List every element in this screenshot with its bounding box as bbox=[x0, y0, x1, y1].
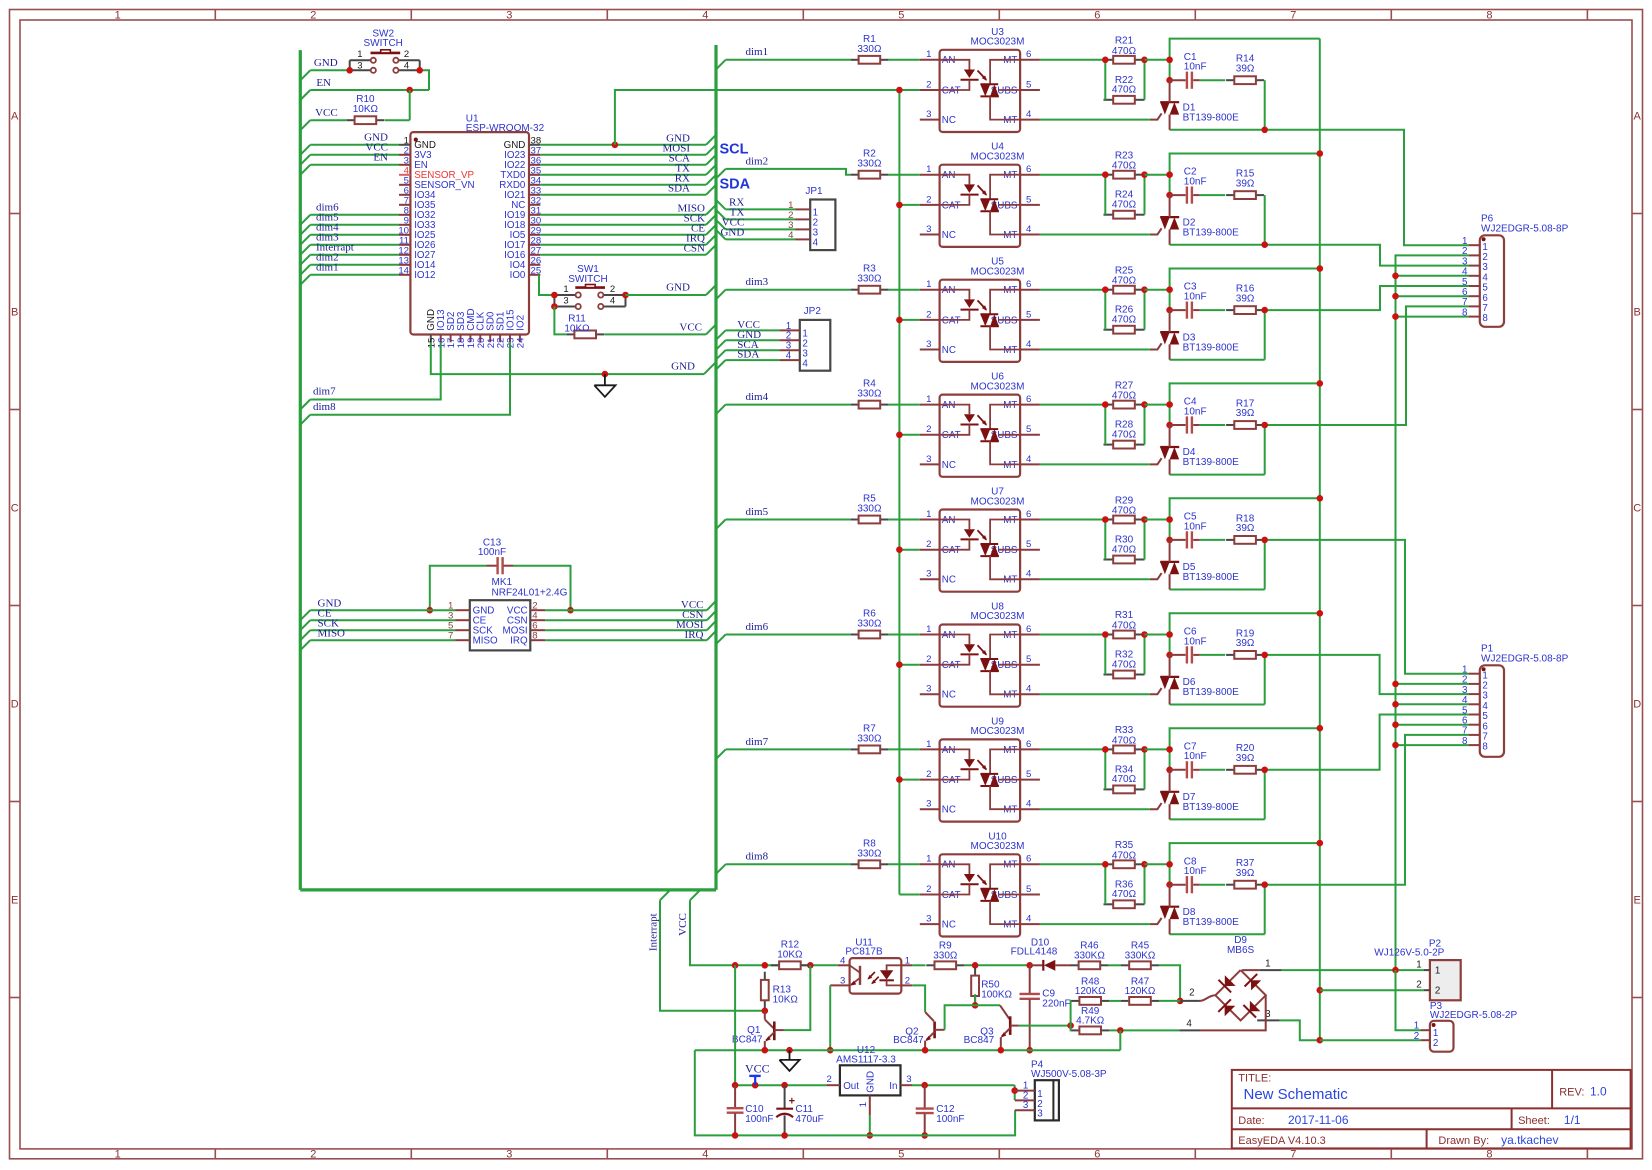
wire R14 down bbox=[1264, 80, 1266, 130]
svg-text:2: 2 bbox=[926, 309, 931, 320]
wire Interrapt vertical bbox=[660, 890, 670, 900]
svg-text:1: 1 bbox=[1416, 959, 1421, 970]
regulator U12 AMS1117-3.3 bbox=[826, 1045, 912, 1116]
wire R20 down bbox=[1264, 770, 1266, 820]
wire SCA to JP2 bbox=[716, 350, 726, 359]
svg-text:2: 2 bbox=[827, 1074, 832, 1085]
opto-triac U8 MOC3023M bbox=[920, 602, 1040, 707]
svg-text:WJ500V-5.08-3P: WJ500V-5.08-3P bbox=[1031, 1069, 1107, 1080]
wire EN bbox=[300, 90, 310, 100]
svg-text:2: 2 bbox=[1433, 1038, 1438, 1049]
resistor R24 470Ohm bbox=[1104, 211, 1145, 219]
capacitor C6 10nF bbox=[1170, 627, 1207, 664]
wire dim8 bbox=[300, 415, 310, 425]
junction R pair left ch3 bbox=[1102, 286, 1109, 293]
svg-text:1: 1 bbox=[926, 509, 931, 520]
svg-text:1: 1 bbox=[1435, 966, 1440, 977]
junction snubber tap ch3 bbox=[1261, 307, 1268, 314]
wire CAT stub ch6 bbox=[899, 664, 919, 666]
svg-text:2: 2 bbox=[610, 284, 615, 295]
wire CAT stub ch5 bbox=[899, 549, 919, 551]
wire R10 right bbox=[385, 119, 410, 121]
svg-text:dim8: dim8 bbox=[746, 851, 769, 863]
svg-text:100KΩ: 100KΩ bbox=[981, 989, 1012, 1000]
svg-text:6: 6 bbox=[1026, 164, 1031, 175]
svg-text:8: 8 bbox=[532, 631, 537, 642]
junction VCC rail/R12 right bbox=[807, 962, 814, 969]
wire R32 parallel left bbox=[1104, 635, 1106, 675]
junction snubber/loop ch2 bbox=[1261, 241, 1268, 248]
svg-text:2: 2 bbox=[926, 654, 931, 665]
resistor R13 10KOhm bbox=[761, 972, 769, 1009]
wire U1 pin15 to GND rail bbox=[431, 342, 704, 374]
svg-text:3: 3 bbox=[926, 799, 931, 810]
wire R7 to opto bbox=[888, 748, 920, 750]
wire channel 2 output bbox=[1170, 245, 1469, 266]
svg-text:dim5: dim5 bbox=[746, 506, 769, 518]
svg-text:330Ω: 330Ω bbox=[857, 504, 882, 515]
junction C9 top bbox=[1026, 962, 1033, 969]
junction CAT ch6 bbox=[896, 661, 903, 668]
wire channel 7 loop bbox=[1170, 728, 1320, 770]
opto-triac U3 MOC3023M bbox=[920, 27, 1040, 132]
junction loop/snubber ch6 bbox=[1166, 631, 1173, 638]
svg-text:330Ω: 330Ω bbox=[857, 733, 882, 744]
resistor R10 10KOhm bbox=[346, 94, 384, 124]
svg-text:A: A bbox=[1634, 111, 1642, 123]
wire R48-R47 bbox=[1109, 1000, 1121, 1002]
junction R pair right ch7 bbox=[1141, 746, 1148, 753]
wire dim6 feed bbox=[716, 635, 726, 645]
opto-triac U5 MOC3023M bbox=[920, 257, 1040, 362]
svg-text:MISO: MISO bbox=[473, 636, 498, 647]
wire MISO from U1 bbox=[540, 214, 706, 216]
wire SCK from U1 bbox=[540, 224, 706, 226]
svg-text:1.0: 1.0 bbox=[1590, 1084, 1607, 1098]
svg-text:1: 1 bbox=[1265, 959, 1270, 970]
svg-text:4: 4 bbox=[1026, 914, 1032, 925]
wire U12 pin3 node bbox=[912, 1084, 1015, 1086]
capacitor C10 100nF bbox=[727, 1085, 774, 1135]
connector P2 WJ126V-5.0-2P bbox=[1374, 939, 1460, 1001]
wire R36 parallel left bbox=[1104, 864, 1106, 904]
switch SW1 bbox=[554, 264, 625, 309]
svg-text:470Ω: 470Ω bbox=[1112, 429, 1137, 440]
wire dim6 to U1 bbox=[300, 215, 310, 225]
resistor R4 330Ohm bbox=[850, 379, 888, 409]
svg-text:330KΩ: 330KΩ bbox=[1125, 950, 1156, 961]
svg-text:330Ω: 330Ω bbox=[933, 950, 958, 961]
wire C10 branch vertical bbox=[734, 965, 736, 1085]
svg-text:3: 3 bbox=[1037, 1109, 1043, 1120]
svg-text:BC847: BC847 bbox=[893, 1035, 924, 1046]
svg-text:CAT: CAT bbox=[942, 430, 961, 441]
ground symbol bbox=[594, 374, 615, 397]
svg-text:4: 4 bbox=[1026, 339, 1032, 350]
svg-text:330Ω: 330Ω bbox=[857, 848, 882, 859]
svg-text:1: 1 bbox=[563, 284, 568, 295]
svg-text:1: 1 bbox=[905, 955, 910, 966]
svg-text:2: 2 bbox=[1416, 979, 1421, 990]
svg-text:4: 4 bbox=[1026, 569, 1032, 580]
wire gate ch4 bbox=[1040, 463, 1150, 465]
wire C6 to R19 bbox=[1200, 654, 1225, 656]
svg-text:3: 3 bbox=[357, 61, 362, 72]
svg-text:1: 1 bbox=[357, 49, 362, 60]
wire U7 MT to R29 bbox=[1040, 519, 1105, 521]
wire P6 even pin bbox=[1396, 316, 1470, 318]
svg-text:SDA: SDA bbox=[720, 177, 751, 193]
svg-text:MOC3023M: MOC3023M bbox=[971, 841, 1025, 852]
wire CAT stub ch3 bbox=[899, 319, 919, 321]
wire R4 to opto bbox=[888, 404, 920, 406]
svg-text:3: 3 bbox=[926, 339, 931, 350]
svg-text:1: 1 bbox=[926, 164, 931, 175]
wire R26 parallel left bbox=[1104, 290, 1106, 330]
wire R45 to D9 pin2 bbox=[1159, 965, 1180, 1001]
svg-text:MT: MT bbox=[1003, 170, 1017, 181]
svg-text:BT139-800E: BT139-800E bbox=[1183, 342, 1239, 353]
svg-text:3: 3 bbox=[506, 1148, 512, 1160]
wire dim2 to U1 bbox=[300, 265, 310, 275]
wire U6 MT to R27 bbox=[1040, 404, 1105, 406]
opto-triac U9 MOC3023M bbox=[920, 716, 1040, 821]
svg-text:24: 24 bbox=[516, 337, 527, 348]
junction loop/cap ch1 bbox=[1166, 77, 1173, 84]
junction P6 even pin bbox=[1392, 273, 1399, 280]
wire VCC low rail bbox=[735, 1084, 826, 1086]
ESP module U1 ESP-WROOM-32 bbox=[398, 113, 544, 348]
svg-text:1: 1 bbox=[926, 854, 931, 865]
svg-text:4: 4 bbox=[1186, 1018, 1192, 1029]
wire channel 3 loop bbox=[1170, 269, 1320, 311]
junction CAT ch2 bbox=[896, 202, 903, 209]
svg-text:5: 5 bbox=[1026, 309, 1031, 320]
wire CE from U1 bbox=[540, 234, 706, 236]
wire C13 left bbox=[430, 566, 487, 611]
svg-text:dim3: dim3 bbox=[746, 276, 769, 288]
svg-text:AMS1117-3.3: AMS1117-3.3 bbox=[836, 1055, 896, 1066]
wire right vertical bus bbox=[714, 45, 717, 890]
junction loop/cap ch5 bbox=[1166, 537, 1173, 544]
svg-text:3: 3 bbox=[926, 914, 931, 925]
power symbol VCC bbox=[745, 1062, 770, 1086]
svg-text:dim1: dim1 bbox=[746, 46, 769, 58]
junction R pair left ch4 bbox=[1102, 401, 1109, 408]
wire R33 to snubber node bbox=[1145, 748, 1170, 750]
junction C11 bottom bbox=[781, 1132, 788, 1139]
svg-text:1: 1 bbox=[926, 279, 931, 290]
junction loop/snubber ch7 bbox=[1166, 746, 1173, 753]
svg-text:39Ω: 39Ω bbox=[1236, 408, 1255, 419]
wire Q1 collector bbox=[784, 965, 810, 1030]
wire P1 even pin bbox=[1396, 703, 1470, 705]
svg-text:1: 1 bbox=[926, 739, 931, 750]
svg-text:4: 4 bbox=[610, 295, 615, 306]
svg-text:MOC3023M: MOC3023M bbox=[971, 152, 1025, 163]
connector P3 WJ2EDGR-5.08-2P bbox=[1414, 1001, 1518, 1052]
resistor R29 470Ohm bbox=[1104, 495, 1145, 523]
resistor R47 120KOhm bbox=[1121, 976, 1159, 1005]
opto-triac U7 MOC3023M bbox=[920, 487, 1040, 592]
wire R48 left down bbox=[1070, 1001, 1073, 1026]
junction C12 top bbox=[921, 1082, 928, 1089]
wire GND to JP1 bbox=[716, 230, 726, 240]
wire R29 to snubber node bbox=[1145, 519, 1170, 521]
wire CSN from U1 bbox=[540, 254, 706, 256]
wire R15 down bbox=[1264, 195, 1266, 245]
svg-text:470Ω: 470Ω bbox=[1112, 391, 1137, 402]
wire U9 MT to R33 bbox=[1040, 748, 1105, 750]
svg-text:dim8: dim8 bbox=[313, 401, 336, 413]
svg-text:8: 8 bbox=[1482, 742, 1488, 753]
wire VCC rail bbox=[735, 964, 838, 966]
capacitor C5 10nF bbox=[1170, 512, 1207, 549]
capacitor C12 100nF bbox=[916, 1085, 965, 1135]
svg-text:10KΩ: 10KΩ bbox=[773, 994, 799, 1005]
svg-text:4: 4 bbox=[1026, 454, 1032, 465]
header JP1 bbox=[788, 186, 835, 250]
wire GND to SW2 bbox=[300, 70, 310, 80]
resistor R14 39Ohm bbox=[1226, 54, 1264, 85]
svg-text:1: 1 bbox=[115, 10, 121, 22]
svg-text:BT139-800E: BT139-800E bbox=[1183, 802, 1239, 813]
wire C3 to R16 bbox=[1200, 309, 1225, 311]
wire channel 4 output bbox=[1265, 306, 1469, 425]
resistor R17 39Ohm bbox=[1226, 398, 1264, 429]
svg-text:7: 7 bbox=[1290, 10, 1296, 22]
svg-text:3: 3 bbox=[906, 1074, 911, 1085]
svg-text:3: 3 bbox=[563, 295, 568, 306]
triac D7 BT139-800E bbox=[1150, 770, 1239, 820]
junction C12 bottom bbox=[921, 1132, 928, 1139]
svg-text:3: 3 bbox=[506, 10, 512, 22]
switch SW2 bbox=[350, 28, 420, 73]
wire VCC from MK1 bbox=[545, 609, 707, 611]
junction R49 right bbox=[1117, 1027, 1124, 1034]
svg-text:2: 2 bbox=[404, 49, 409, 60]
svg-text:8: 8 bbox=[1486, 10, 1492, 22]
wire R26 parallel right bbox=[1144, 290, 1146, 330]
wire dim3 to U1 bbox=[300, 245, 310, 255]
svg-text:SWITCH: SWITCH bbox=[568, 274, 607, 285]
junction C13 left bbox=[427, 607, 434, 614]
wire R35 to snubber node bbox=[1145, 863, 1170, 865]
wire C2 to R15 bbox=[1200, 194, 1225, 196]
svg-text:2: 2 bbox=[926, 194, 931, 205]
junction P1 even pin bbox=[1392, 701, 1399, 708]
wire GND to U1 pin1 bbox=[300, 145, 310, 155]
junction VCC rail/C10 branch bbox=[732, 962, 739, 969]
svg-text:330Ω: 330Ω bbox=[857, 274, 882, 285]
wire dim3 feed bbox=[716, 290, 726, 300]
junction P4 pin1 bbox=[1011, 1087, 1018, 1094]
wire R10 to EN bbox=[409, 90, 411, 120]
RF module MK1 NRF24L01+2.4G bbox=[448, 577, 568, 650]
junction mains vertical ch2 bbox=[1317, 150, 1324, 157]
wire VCC to R10 bbox=[300, 120, 310, 130]
svg-text:470Ω: 470Ω bbox=[1112, 161, 1137, 172]
opto-triac U10 MOC3023M bbox=[920, 831, 1040, 936]
svg-text:C: C bbox=[11, 503, 19, 515]
svg-text:470Ω: 470Ω bbox=[1112, 85, 1137, 96]
wire common to P3 pin1 bbox=[1396, 970, 1422, 1030]
wire C7 to R20 bbox=[1200, 769, 1225, 771]
wire channel 3 output bbox=[1265, 286, 1469, 310]
resistor R22 470Ohm bbox=[1104, 96, 1145, 104]
svg-text:470Ω: 470Ω bbox=[1112, 506, 1137, 517]
triac D5 BT139-800E bbox=[1150, 540, 1239, 590]
wire R30 parallel right bbox=[1144, 520, 1146, 560]
svg-text:14: 14 bbox=[398, 265, 409, 276]
wire R5 to opto bbox=[888, 519, 920, 521]
svg-text:470Ω: 470Ω bbox=[1112, 774, 1137, 785]
wire dim4 feed bbox=[716, 405, 726, 415]
junction mains vertical ch8 bbox=[1317, 840, 1324, 847]
junction ground symbol bbox=[602, 371, 609, 378]
wire MOSI from MK1 bbox=[545, 629, 707, 631]
svg-text:470Ω: 470Ω bbox=[1112, 46, 1137, 57]
junction R pair right ch2 bbox=[1141, 171, 1148, 178]
svg-text:5: 5 bbox=[898, 10, 904, 22]
junction Q2 emitter/GND rail bbox=[922, 1047, 929, 1054]
junction R50 top bbox=[972, 962, 979, 969]
svg-text:10nF: 10nF bbox=[1184, 866, 1207, 877]
svg-text:MOC3023M: MOC3023M bbox=[971, 726, 1025, 737]
wire SDA to JP2 bbox=[716, 360, 726, 369]
wire channel 1 output bbox=[1170, 130, 1469, 245]
wire R46-R45 bbox=[1108, 964, 1121, 966]
resistor R20 39Ohm bbox=[1226, 743, 1264, 774]
junction GND/CAT link bbox=[612, 142, 619, 149]
resistor R15 39Ohm bbox=[1226, 169, 1264, 200]
wire R24 parallel right bbox=[1144, 175, 1146, 215]
svg-text:3: 3 bbox=[926, 684, 931, 695]
resistor R46 330KOhm bbox=[1070, 941, 1108, 970]
junction P1 even pin bbox=[1392, 681, 1399, 688]
svg-text:JP2: JP2 bbox=[804, 306, 822, 317]
triac D4 BT139-800E bbox=[1150, 425, 1239, 475]
svg-text:5: 5 bbox=[1026, 884, 1031, 895]
wire gate ch3 bbox=[1040, 349, 1150, 351]
svg-text:330Ω: 330Ω bbox=[857, 159, 882, 170]
svg-text:MOC3023M: MOC3023M bbox=[971, 267, 1025, 278]
triac D3 BT139-800E bbox=[1150, 310, 1239, 360]
svg-text:VCC: VCC bbox=[679, 321, 702, 333]
opto U11 PC817B bbox=[830, 938, 912, 994]
junction P6 even pin bbox=[1392, 313, 1399, 320]
wire gate ch6 bbox=[1040, 693, 1150, 695]
wire channel 8 loop bbox=[1170, 843, 1320, 885]
svg-text:10nF: 10nF bbox=[1184, 406, 1207, 417]
capacitor C7 10nF bbox=[1170, 741, 1207, 778]
header JP2 bbox=[779, 306, 830, 371]
resistor R27 470Ohm bbox=[1104, 380, 1145, 408]
svg-text:E: E bbox=[1634, 895, 1641, 907]
svg-text:dim6: dim6 bbox=[746, 621, 769, 633]
wire dim1 feed bbox=[716, 60, 726, 70]
svg-text:4: 4 bbox=[802, 358, 808, 369]
junction SW1 pin3 bbox=[551, 303, 558, 310]
svg-text:10nF: 10nF bbox=[1184, 177, 1207, 188]
wire channel 1 loop bbox=[1170, 39, 1320, 81]
svg-text:1: 1 bbox=[926, 49, 931, 60]
svg-text:39Ω: 39Ω bbox=[1236, 178, 1255, 189]
svg-text:MOC3023M: MOC3023M bbox=[971, 611, 1025, 622]
svg-text:MISO: MISO bbox=[318, 628, 346, 640]
wire channel 8 loop bottom bbox=[1170, 933, 1265, 935]
svg-text:2: 2 bbox=[926, 884, 931, 895]
svg-text:BC847: BC847 bbox=[964, 1035, 995, 1046]
wire GND to MK1 bbox=[300, 610, 310, 620]
svg-text:1/1: 1/1 bbox=[1564, 1113, 1581, 1127]
wire gate ch1 bbox=[1040, 119, 1150, 121]
wire R28 parallel right bbox=[1144, 405, 1146, 445]
junction snubber tap ch7 bbox=[1261, 767, 1268, 774]
wire RX from U1 bbox=[540, 184, 706, 186]
wire U3 MT to R21 bbox=[1040, 59, 1105, 61]
svg-text:REV:: REV: bbox=[1559, 1086, 1584, 1098]
resistor R8 330Ohm bbox=[850, 838, 888, 868]
junction C11 top bbox=[781, 1082, 788, 1089]
wire left vertical bus bbox=[299, 50, 302, 890]
svg-text:EN: EN bbox=[316, 77, 331, 89]
junction loop/snubber ch3 bbox=[1166, 286, 1173, 293]
wire P2 pin2 bbox=[1320, 989, 1424, 991]
wire dim2 feed bbox=[716, 169, 726, 179]
resistor R36 470Ohm bbox=[1104, 900, 1145, 908]
svg-text:SDA: SDA bbox=[737, 349, 759, 361]
svg-text:10nF: 10nF bbox=[1184, 62, 1207, 73]
triac D2 BT139-800E bbox=[1150, 195, 1239, 245]
svg-text:4: 4 bbox=[1026, 684, 1032, 695]
capacitor C4 10nF bbox=[1170, 397, 1207, 434]
wire bottom bus bbox=[300, 888, 716, 891]
svg-text:330Ω: 330Ω bbox=[857, 44, 882, 55]
junction mains vertical ch6 bbox=[1317, 610, 1324, 617]
junction Q3 emitter/GND rail bbox=[998, 1047, 1005, 1054]
junction R13/Interrapt bbox=[762, 1008, 769, 1015]
wire P3 pin2 bbox=[1320, 1039, 1421, 1041]
wire R9 to C9 node bbox=[964, 964, 1030, 966]
junction common/D9 pin1 bbox=[1392, 967, 1399, 974]
title block bbox=[1232, 1070, 1631, 1149]
svg-text:NC: NC bbox=[942, 575, 956, 586]
svg-text:4: 4 bbox=[840, 955, 846, 966]
wire SCA from U1 bbox=[540, 164, 706, 166]
junction VCC rail/R13 bbox=[762, 962, 769, 969]
svg-text:470Ω: 470Ω bbox=[1112, 850, 1137, 861]
svg-text:CAT: CAT bbox=[942, 200, 961, 211]
wire TX to JP1 bbox=[716, 210, 726, 220]
junction loop/snubber ch5 bbox=[1166, 516, 1173, 523]
svg-text:2: 2 bbox=[905, 975, 910, 986]
svg-text:WJ2EDGR-5.08-8P: WJ2EDGR-5.08-8P bbox=[1481, 654, 1569, 665]
wire R18 down bbox=[1264, 540, 1266, 590]
svg-text:10nF: 10nF bbox=[1184, 292, 1207, 303]
junction snubber tap ch5 bbox=[1261, 537, 1268, 544]
wire R8 to opto bbox=[888, 863, 920, 865]
svg-text:470Ω: 470Ω bbox=[1112, 735, 1137, 746]
wire channel 4 loop bottom bbox=[1170, 474, 1265, 476]
svg-text:2: 2 bbox=[310, 10, 316, 22]
wire dim4 to U1 bbox=[300, 235, 310, 245]
junction SW2 pin4 bbox=[416, 67, 423, 74]
wire R37 down bbox=[1264, 885, 1266, 935]
junction loop/cap ch2 bbox=[1166, 192, 1173, 199]
svg-text:Date:: Date: bbox=[1238, 1115, 1264, 1127]
svg-text:NC: NC bbox=[942, 115, 956, 126]
